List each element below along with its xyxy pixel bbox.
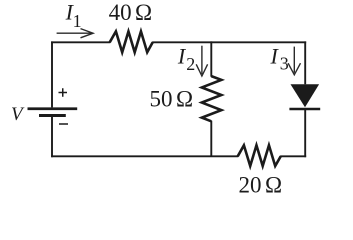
svg-text:1: 1 [73,11,82,31]
svg-text:3: 3 [280,54,289,74]
svg-text:40 Ω: 40 Ω [109,0,153,25]
svg-text:20 Ω: 20 Ω [239,173,283,198]
svg-text:2: 2 [186,54,195,74]
svg-text:50 Ω: 50 Ω [150,87,194,112]
